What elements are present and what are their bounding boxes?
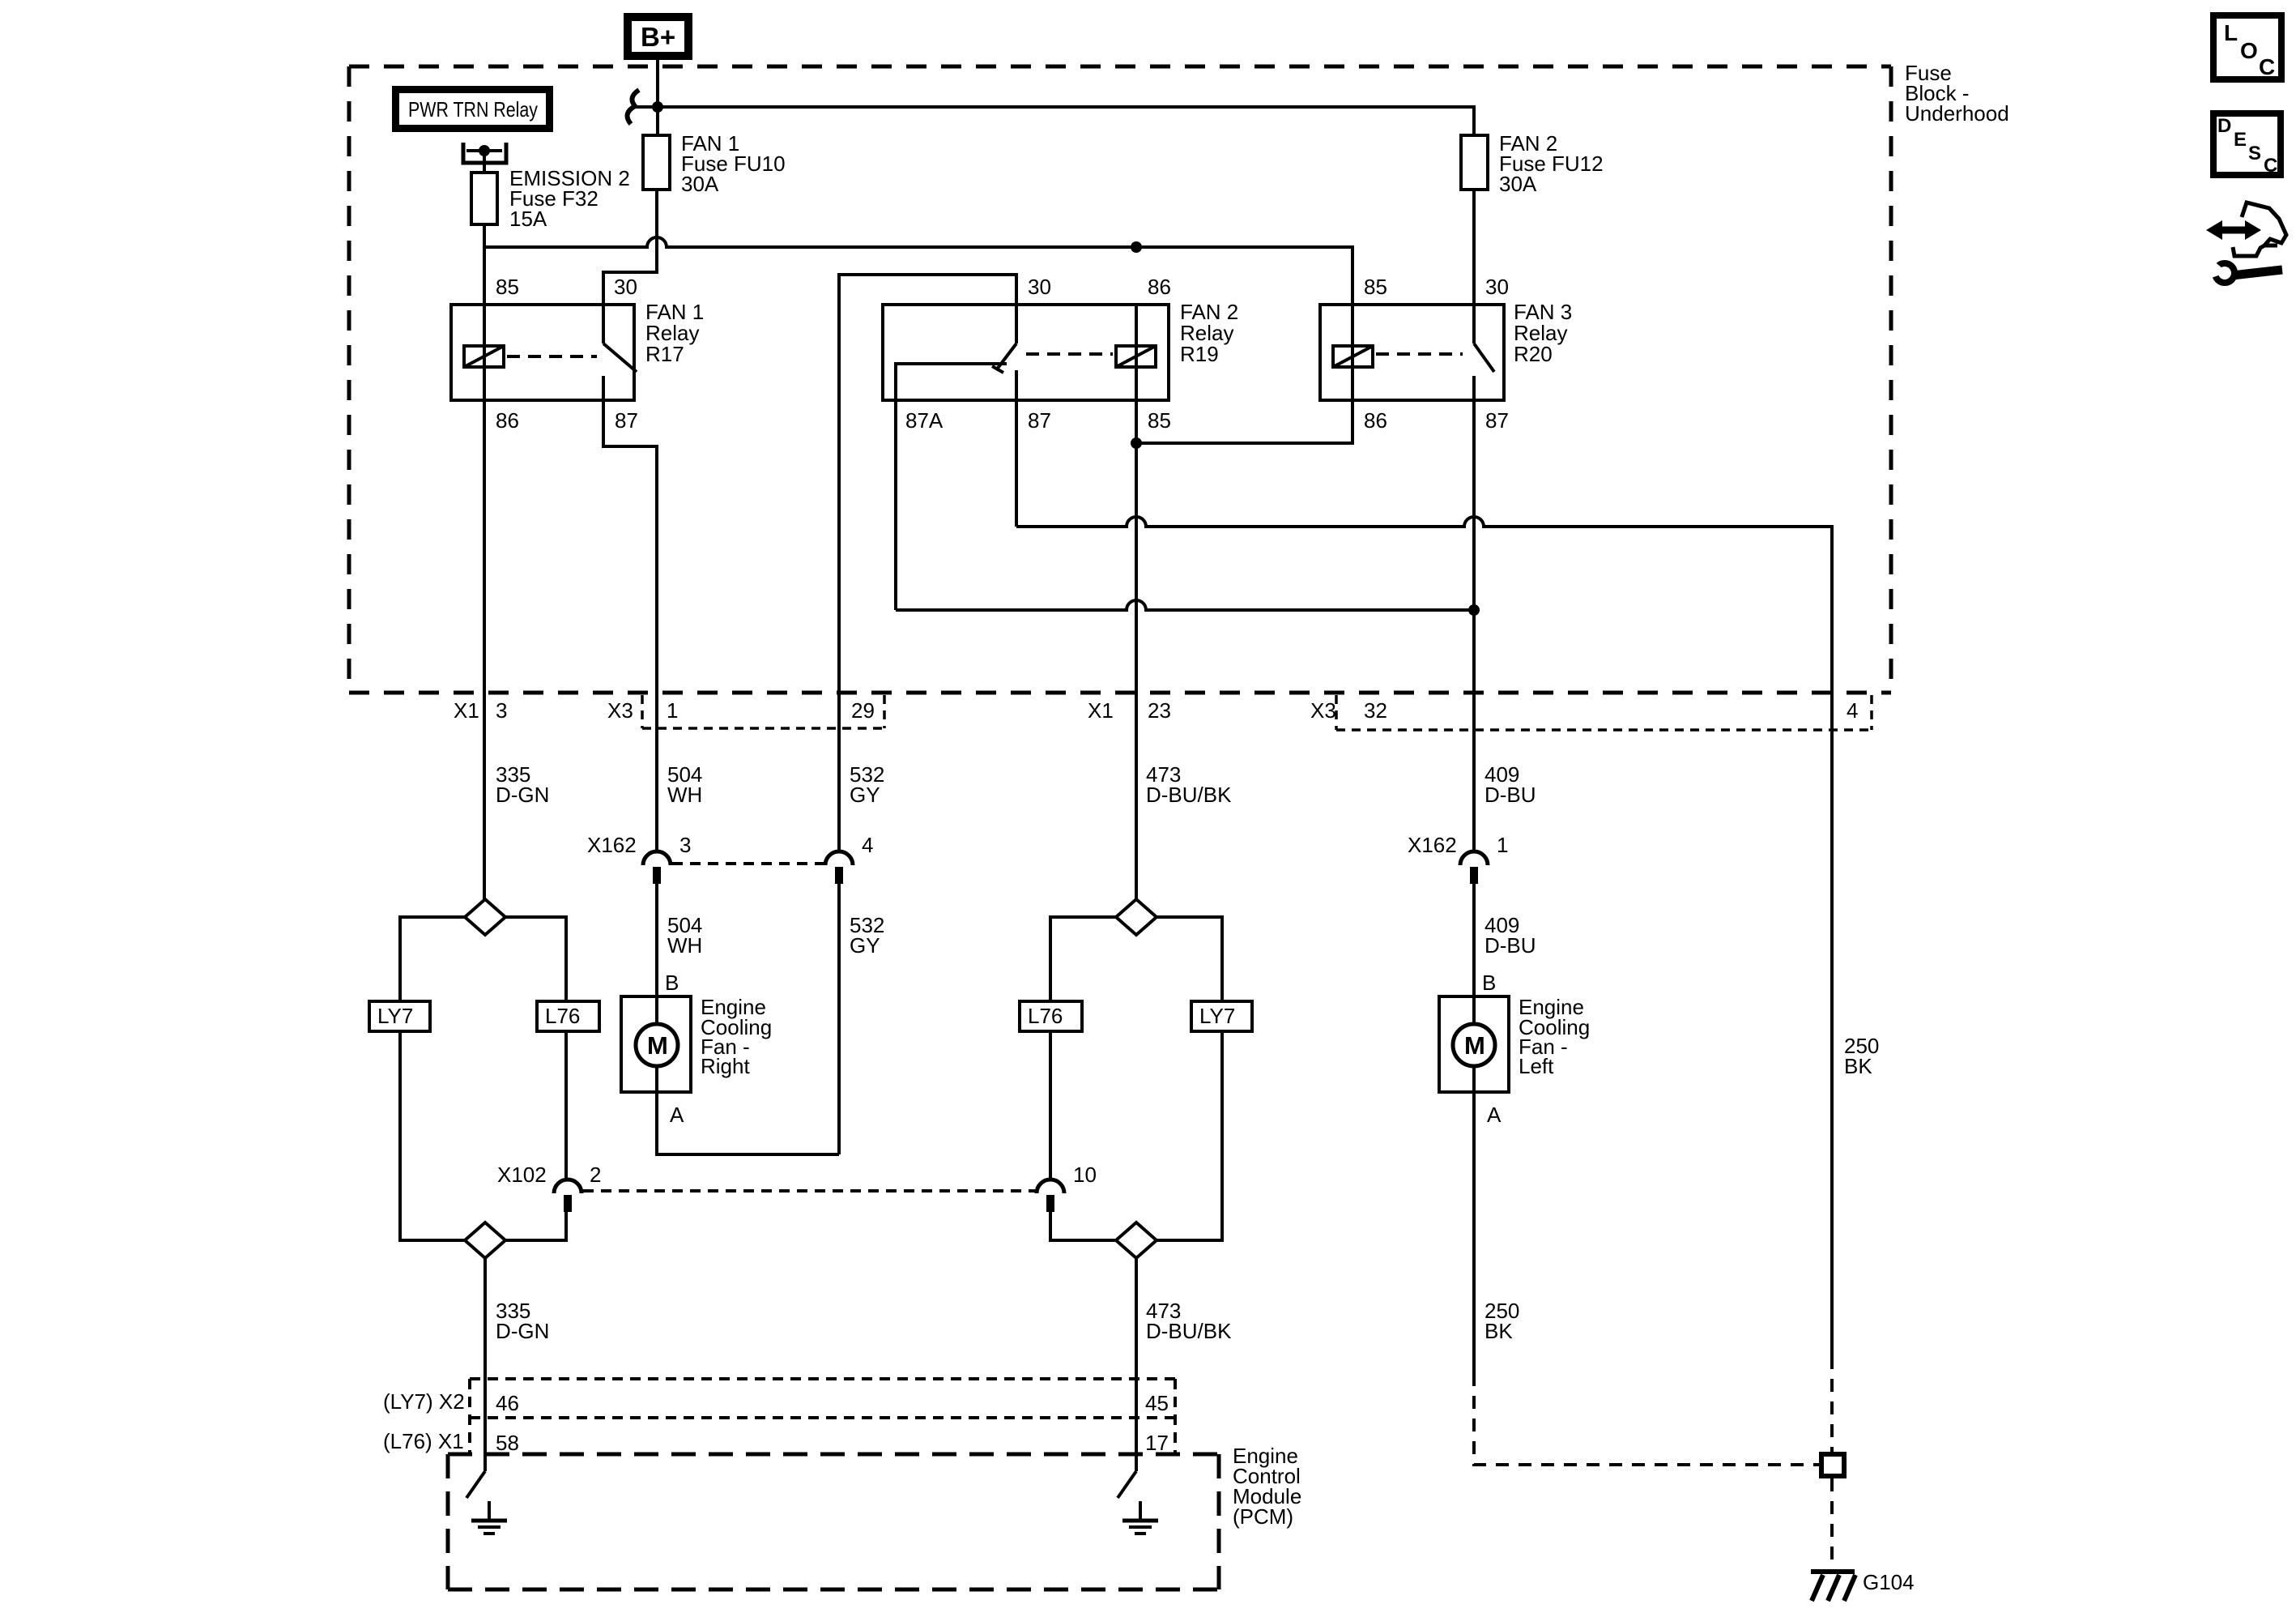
wire 473 D-BU/BK to ECM [1135, 1258, 1138, 1471]
svg-text:B: B [1482, 971, 1496, 995]
legend icon: double arrow with vehicle outline [2206, 203, 2286, 256]
motor M left: Engine Cooling Fan - Left [1439, 971, 1590, 1127]
relay R20 FAN 3 [1320, 300, 1572, 400]
svg-text:R17: R17 [645, 342, 684, 366]
svg-text:S: S [2248, 143, 2261, 164]
circuit label 335 D-GN upper [496, 762, 549, 807]
svg-text:3: 3 [496, 698, 507, 723]
svg-text:46: 46 [496, 1391, 519, 1415]
DESC legend box [2213, 113, 2281, 177]
wire FAN2-87A to FAN3-87 node (hops one vertical) [896, 400, 1474, 610]
wire bus from F32 branch to FAN 3 relay pin 85 (hops FU10 wire) [484, 237, 1352, 305]
engine code box LY7 right [1191, 1001, 1252, 1031]
svg-text:X1: X1 [454, 698, 479, 723]
branch wires to LY7/L76 left [400, 917, 566, 1001]
svg-text:BK: BK [1485, 1319, 1513, 1343]
svg-text:17: 17 [1145, 1431, 1169, 1455]
wire X162-1 to left fan motor pin B [1472, 883, 1476, 996]
relay R20 pin labels [1364, 275, 1509, 433]
wire X102-2 to merge diamond [505, 1212, 566, 1240]
svg-text:D-BU/BK: D-BU/BK [1146, 1319, 1232, 1343]
connector X3 dashed box (pins 1-29) [642, 695, 884, 728]
svg-text:86: 86 [496, 408, 519, 433]
circuit label 250 BK right run [1844, 1034, 1879, 1078]
circuit label 473 D-BU/BK upper [1146, 762, 1232, 807]
svg-text:X1: X1 [1088, 698, 1114, 723]
X102 harness dashed tie 2-10 [583, 1189, 1035, 1192]
wire 335 D-GN to ECM [483, 1258, 487, 1471]
svg-text:86: 86 [1364, 408, 1387, 433]
engine code box L76 right [1020, 1001, 1082, 1031]
svg-text:M: M [1464, 1031, 1485, 1060]
relay R20 switch [1474, 305, 1494, 400]
svg-text:85: 85 [1148, 408, 1171, 433]
Fuse Block - Underhood label [1905, 61, 2009, 126]
svg-text:30A: 30A [1499, 172, 1537, 196]
wire FAN2-87 to ground run 250 BK (hops two verticals) [1016, 400, 1832, 1356]
relay R19 switch with 87A contact [896, 305, 1016, 400]
svg-text:(L76) X1: (L76) X1 [383, 1429, 464, 1453]
svg-text:GY: GY [850, 783, 880, 807]
ECM driver switch 473 [1118, 1454, 1158, 1534]
wire FAN 2 relay pin 30 elbow up to 532 GY drop [839, 275, 1016, 852]
in-line connector X102 pin 10 [1037, 1163, 1097, 1212]
branch wire below L76 to X102-10 [1049, 1031, 1052, 1180]
svg-text:X162: X162 [587, 833, 637, 857]
svg-text:4: 4 [862, 833, 873, 857]
merge diamond lower right [1116, 1222, 1157, 1258]
svg-text:15A: 15A [509, 207, 547, 231]
relay R20 coil [1333, 305, 1373, 400]
svg-text:WH: WH [667, 783, 702, 807]
ECM PCM dashed box [448, 1454, 1219, 1589]
engine code box L76 left [537, 1001, 599, 1031]
svg-text:BK: BK [1844, 1054, 1872, 1078]
dashed ground run left fan to G104 splice block [1474, 1373, 1819, 1465]
svg-text:D-BU/BK: D-BU/BK [1146, 783, 1232, 807]
svg-text:R19: R19 [1180, 342, 1219, 366]
wire right motor pin A to 532 GY riser [657, 1092, 839, 1154]
svg-text:4: 4 [1847, 698, 1858, 723]
in-line connector X162 pin 4 [825, 833, 873, 884]
svg-text:30A: 30A [681, 172, 719, 196]
circuit label 532 GY lower [850, 913, 884, 958]
engine code box LY7 left [369, 1001, 430, 1031]
svg-text:PWR TRN Relay: PWR TRN Relay [408, 97, 538, 122]
battery feed B+ terminal [628, 17, 688, 56]
wire X162-3 to right fan motor pin B [655, 883, 658, 996]
Fuse Block - Underhood dashed boundary [349, 66, 1891, 693]
svg-text:D-GN: D-GN [496, 1319, 549, 1343]
fuse F32 EMISSION 2 15A [471, 166, 630, 231]
relay R19 pin labels [905, 275, 1171, 433]
relay R17 pin labels [496, 275, 638, 433]
merge diamond lower left [465, 1222, 505, 1258]
wire B+ down to Fuse FU10 [656, 60, 659, 135]
PWR TRN Relay reference box [396, 90, 550, 129]
node splice FAN2-85 to FAN3-86 [1131, 437, 1142, 449]
svg-text:M: M [647, 1031, 668, 1060]
svg-text:D: D [2217, 115, 2231, 137]
fuse FU10 FAN 1 30A [643, 131, 786, 196]
legend icon: wrench [2208, 256, 2282, 283]
svg-text:85: 85 [1364, 275, 1387, 299]
svg-text:L76: L76 [1028, 1004, 1063, 1028]
svg-text:B: B [665, 971, 679, 995]
svg-text:23: 23 [1148, 698, 1171, 723]
svg-text:X3: X3 [607, 698, 633, 723]
svg-text:X3: X3 [1310, 698, 1336, 723]
relay R19 FAN 2 [883, 300, 1238, 400]
svg-text:D-GN: D-GN [496, 783, 549, 807]
dashed ground run right 250 BK to G104 [1830, 1356, 1834, 1452]
relay R19 coil [1116, 305, 1156, 400]
in-line connector X162 pin 3 [587, 833, 691, 884]
branch wire below LY7 [400, 1031, 465, 1240]
wire splice to FAN 3 relay pin 86 [1136, 400, 1352, 443]
G104 splice block [1821, 1454, 1844, 1476]
branch wires to L76/LY7 right [1050, 917, 1222, 1001]
svg-text:1: 1 [667, 698, 678, 723]
svg-text:(PCM): (PCM) [1233, 1504, 1293, 1529]
svg-text:(LY7) X2: (LY7) X2 [383, 1389, 465, 1414]
circuit label 504 WH upper [667, 762, 702, 807]
ECM row labels [383, 1389, 1169, 1455]
svg-text:D-BU: D-BU [1485, 783, 1536, 807]
svg-text:87: 87 [1028, 408, 1051, 433]
branch wire below L76 to X102-2 [564, 1031, 568, 1180]
svg-text:L76: L76 [545, 1004, 580, 1028]
in-line connector X162 pin 1 [1408, 833, 1508, 884]
node splice 87A / FAN3-87 [1468, 604, 1480, 616]
circuit label 409 D-BU lower [1485, 913, 1536, 958]
relay R20 coil-to-switch dashed link [1376, 352, 1463, 356]
wire FAN1-86 down / circuit 335 D-GN [483, 400, 486, 899]
svg-text:86: 86 [1148, 275, 1171, 299]
splitter diamond upper left (335 D-GN) [465, 899, 505, 935]
connector terminal cup below PWR TRN Relay [463, 143, 506, 173]
relay R17 coil [464, 305, 504, 400]
svg-text:32: 32 [1364, 698, 1387, 723]
circuit label 473 D-BU/BK lower [1146, 1299, 1232, 1343]
svg-text:85: 85 [496, 275, 519, 299]
LOC legend box [2213, 15, 2281, 79]
svg-text:30: 30 [1028, 275, 1051, 299]
ECM connector row X2 [470, 1379, 1175, 1454]
connector X3 dashed box (pins 32-4) [1336, 695, 1872, 730]
svg-text:A: A [1487, 1103, 1502, 1127]
svg-text:87: 87 [1485, 408, 1509, 433]
fuse FU12 FAN 2 30A [1461, 131, 1604, 196]
circuit label 250 BK left fan [1485, 1299, 1519, 1343]
svg-text:30: 30 [614, 275, 637, 299]
svg-text:Underhood: Underhood [1905, 101, 2009, 126]
ground G104 [1811, 1570, 1915, 1601]
svg-text:Right: Right [701, 1054, 750, 1078]
svg-text:29: 29 [851, 698, 875, 723]
relay R17 FAN 1 [451, 300, 704, 400]
relay R17 coil-to-switch dashed link [507, 355, 597, 358]
svg-text:X102: X102 [497, 1163, 547, 1187]
circuit label 335 D-GN lower [496, 1299, 549, 1343]
svg-text:10: 10 [1073, 1163, 1097, 1187]
relay R17 switch [603, 305, 637, 400]
splitter diamond upper right (473) [1116, 899, 1157, 935]
svg-text:GY: GY [850, 933, 880, 958]
svg-text:87: 87 [615, 408, 638, 433]
motor M right: Engine Cooling Fan - Right [621, 971, 772, 1127]
node splice to FAN 2 relay pin 86 [1131, 241, 1142, 253]
circuit label 504 WH lower [667, 913, 702, 958]
svg-text:30: 30 [1485, 275, 1509, 299]
svg-text:R20: R20 [1514, 342, 1553, 366]
svg-text:C: C [2259, 54, 2275, 79]
svg-text:D-BU: D-BU [1485, 933, 1536, 958]
wire FAN2-85 down / circuit 473 D-BU/BK [1135, 400, 1138, 899]
ECM label [1233, 1444, 1301, 1529]
wire FAN3-87 down / circuit 409 D-BU [1472, 400, 1476, 852]
connector pin labels at fuse block exit [454, 698, 1858, 723]
svg-text:1: 1 [1497, 833, 1508, 857]
svg-text:58: 58 [496, 1431, 519, 1455]
wire FU12 down to FAN 3 relay pin 30 [1472, 190, 1476, 305]
in-line connector X102 pin 2 [497, 1163, 601, 1212]
wire F32 down to FAN 1 relay pin 85 [483, 224, 486, 305]
svg-text:C: C [2264, 155, 2277, 177]
svg-text:E: E [2234, 129, 2247, 151]
svg-text:45: 45 [1145, 1391, 1169, 1415]
X162 harness dashed tie 3-4 [672, 862, 824, 865]
ECM driver switch 335 [466, 1454, 507, 1534]
svg-text:87A: 87A [905, 408, 944, 433]
svg-text:G104: G104 [1863, 1570, 1915, 1594]
dashed lead splice block to ground [1830, 1478, 1834, 1569]
svg-text:LY7: LY7 [1199, 1004, 1235, 1028]
node splice at B+ feed [652, 101, 663, 113]
wire B+ feed to FAN 2 fuse [658, 107, 1474, 135]
svg-text:A: A [670, 1103, 684, 1127]
svg-text:O: O [2240, 38, 2258, 63]
svg-text:Left: Left [1519, 1054, 1554, 1078]
circuit label 532 GY upper [850, 762, 884, 807]
wire X162-4 down to motor A elbow [837, 883, 841, 1154]
svg-text:L: L [2224, 20, 2238, 45]
svg-text:X162: X162 [1408, 833, 1457, 857]
wire FU10 elbow to FAN 1 relay pin 30 [603, 190, 657, 305]
svg-text:WH: WH [667, 933, 702, 958]
relay R19 coil-to-switch dashed link [1026, 352, 1113, 356]
wire X102-10 to merge diamond [1050, 1212, 1116, 1240]
svg-text:2: 2 [590, 1163, 601, 1187]
svg-text:3: 3 [679, 833, 691, 857]
circuit label 409 D-BU upper [1485, 762, 1536, 807]
fusible link hook symbol [628, 90, 652, 124]
branch wire below LY7 right [1157, 1031, 1222, 1240]
wire left motor pin A down 250 BK [1472, 1092, 1476, 1373]
wire FAN1-87 elbow to 504 WH drop [603, 400, 657, 852]
svg-text:LY7: LY7 [377, 1004, 413, 1028]
svg-text:B+: B+ [641, 22, 675, 52]
